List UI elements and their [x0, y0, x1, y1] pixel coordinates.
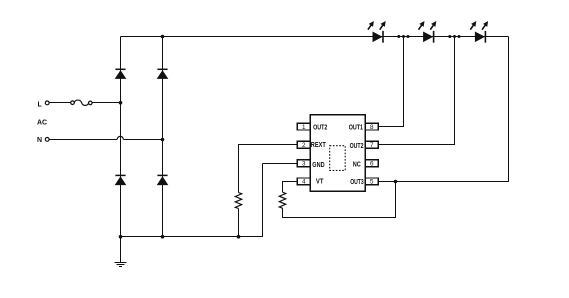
resistor R2 — [279, 192, 285, 208]
svg-text:7: 7 — [370, 142, 374, 149]
svg-text:6: 6 — [370, 161, 374, 168]
ground — [114, 263, 126, 267]
diode D2 — [157, 69, 169, 79]
svg-text:L: L — [38, 101, 43, 108]
node N / bridge right — [161, 138, 165, 142]
wire N crossover hop — [117, 136, 123, 139]
pin 7 box — [365, 141, 378, 148]
node N terminal — [45, 138, 49, 142]
wire top rail — [121, 36, 509, 38]
node OUT3 / VT resistor — [394, 180, 398, 184]
node L / bridge left — [119, 101, 123, 105]
wire fuse to bridge left — [92, 102, 120, 104]
node LED2 ellipsis dots — [448, 35, 451, 38]
node bottom rail / ground tap — [119, 235, 123, 239]
LED LED2 — [419, 21, 437, 43]
op-amp U1 body — [310, 115, 365, 192]
svg-text:GND: GND — [312, 162, 324, 169]
svg-text:N: N — [37, 137, 42, 144]
svg-text:2: 2 — [302, 142, 306, 149]
pin 1 box — [297, 123, 310, 130]
node bottom rail / R1 — [237, 235, 241, 239]
wire REXT pin to R1 top — [239, 145, 298, 193]
svg-text:OUT2: OUT2 — [350, 143, 364, 150]
diode D4 — [157, 175, 169, 185]
svg-text:1: 1 — [302, 124, 306, 131]
wire OUT1 tap — [378, 37, 403, 127]
resistor R1 — [235, 193, 241, 209]
svg-text:8: 8 — [370, 124, 374, 131]
svg-text:4: 4 — [302, 179, 306, 186]
node bottom rail / bridge right — [161, 235, 165, 239]
svg-text:OUT3: OUT3 — [350, 179, 364, 186]
pin 2 box — [297, 141, 310, 148]
wire R1 bottom to rail — [238, 209, 240, 237]
svg-text:AC: AC — [37, 120, 47, 127]
svg-text:OUT2: OUT2 — [313, 125, 327, 132]
wire OUT2 tap — [378, 37, 454, 145]
wire OUT3 net: right vertical and pin5 run — [378, 37, 508, 182]
wire bridge left vertical — [120, 37, 122, 238]
pin 4 box — [297, 178, 310, 185]
wire L terminal to fuse — [49, 102, 71, 104]
wire N line left of hop — [49, 139, 117, 141]
wire GND pin run — [263, 163, 298, 165]
svg-text:3: 3 — [302, 161, 306, 168]
svg-text:VT: VT — [316, 179, 324, 186]
svg-text:NC: NC — [353, 161, 361, 168]
wire R2 bottom to OUT3 net — [283, 182, 396, 218]
node L terminal — [45, 101, 49, 105]
svg-text:OUT1: OUT1 — [349, 125, 363, 132]
diode D3 — [115, 175, 127, 185]
pin 8 box — [365, 123, 378, 130]
svg-text:5: 5 — [370, 179, 374, 186]
node top rail / bridge right — [161, 35, 165, 39]
LED LED1 — [368, 21, 386, 43]
diode D1 — [115, 69, 127, 79]
node LED1 ellipsis dots — [397, 35, 400, 38]
wire VT pin to R2 top — [283, 182, 298, 193]
wire bottom rail — [121, 164, 263, 237]
pin 6 box — [365, 160, 378, 167]
svg-text:REXT: REXT — [311, 142, 327, 149]
wire ground stem — [120, 237, 122, 262]
thermal pad (dotted) — [330, 146, 346, 171]
LED LED3 — [470, 21, 488, 43]
wire N line right of hop — [123, 139, 162, 141]
fuse F1 — [71, 100, 92, 105]
pin 3 box — [297, 160, 310, 167]
pin 5 box — [365, 178, 378, 185]
wire bridge right vertical — [162, 37, 164, 238]
